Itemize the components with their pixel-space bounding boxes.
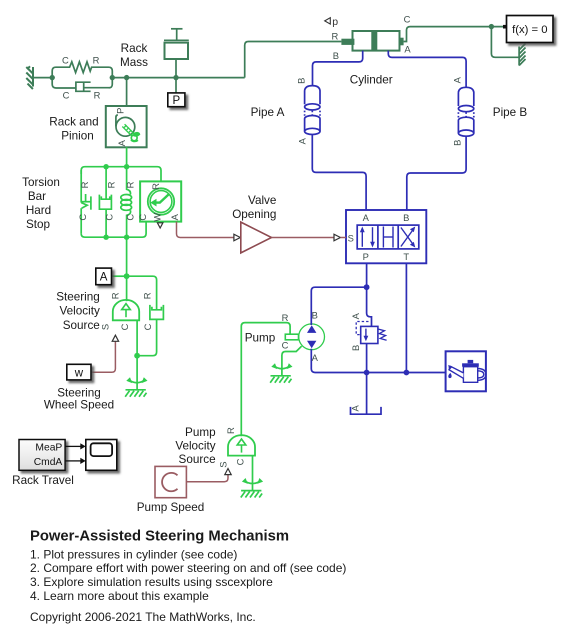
svg-text:A: A xyxy=(404,43,411,54)
sensor tag P xyxy=(168,93,185,107)
wire to rack and pinion P xyxy=(126,78,128,106)
wire valve P down xyxy=(367,263,372,326)
directional valve U3 border xyxy=(346,210,426,263)
rotational damper branch xyxy=(99,167,111,238)
cylinder body xyxy=(353,31,400,51)
svg-text:R: R xyxy=(79,181,90,188)
node pump B / valve P xyxy=(364,284,370,290)
svg-text:B: B xyxy=(403,212,409,223)
svg-text:Rack and: Rack and xyxy=(49,115,98,128)
pinion circle xyxy=(116,117,135,136)
wire main horizontal rail xyxy=(112,77,244,79)
wire torsion top bus xyxy=(81,167,161,182)
svg-text:B: B xyxy=(451,140,462,146)
pressure relief valve body xyxy=(361,326,378,343)
svg-text:f(x) = 0: f(x) = 0 xyxy=(512,24,547,36)
wire source C down xyxy=(136,320,138,389)
pump triangles xyxy=(307,325,316,333)
svg-text:A: A xyxy=(312,352,319,363)
rack mass icon xyxy=(164,29,189,78)
sensor needle xyxy=(150,194,169,206)
pump S input arrow xyxy=(225,469,231,475)
sensor W unconnected arrow xyxy=(157,223,163,228)
svg-text:Source: Source xyxy=(63,319,100,332)
wire sensor A to gain xyxy=(177,222,234,238)
valve right cell X arrows xyxy=(401,227,415,248)
svg-text:R: R xyxy=(93,54,100,65)
wire damper C down-left xyxy=(137,319,157,355)
svg-text:C: C xyxy=(119,323,130,330)
node relief B xyxy=(364,370,370,376)
wire rail up to cylinder rod xyxy=(245,42,342,78)
wire rack-pinion A to torsion top bus xyxy=(126,147,128,166)
svg-text:Pinion: Pinion xyxy=(61,129,94,142)
rotated labels xyxy=(77,76,463,467)
svg-text:C: C xyxy=(142,323,153,330)
svg-text:C: C xyxy=(404,14,411,25)
pump velocity source dome xyxy=(228,435,255,455)
torsion spring branch xyxy=(121,167,132,238)
node bottom bus spring xyxy=(124,235,129,240)
svg-text:R: R xyxy=(225,427,236,434)
oil can icon xyxy=(448,360,486,382)
svg-text:Rack Travel: Rack Travel xyxy=(12,474,74,487)
svg-text:P: P xyxy=(363,251,369,262)
svg-text:A: A xyxy=(349,404,360,411)
wire A-tag to shaft xyxy=(112,275,127,277)
wire pump A to tank rail xyxy=(311,349,445,373)
svg-text:4. Learn more about this examp: 4. Learn more about this example xyxy=(30,589,209,603)
svg-text:Steering: Steering xyxy=(57,386,101,399)
node left xyxy=(50,75,55,80)
svg-text:S: S xyxy=(348,232,354,243)
svg-text:Power-Assisted Steering Mechan: Power-Assisted Steering Mechanism xyxy=(30,529,289,545)
pump circle xyxy=(299,324,325,350)
svg-text:Torsion: Torsion xyxy=(22,176,60,189)
sensor gauge circles xyxy=(148,188,174,214)
svg-text:1. Plot pressures in cylinder: 1. Plot pressures in cylinder (see code) xyxy=(30,547,237,561)
svg-text:Pump Speed: Pump Speed xyxy=(137,501,205,514)
wire node to right wall xyxy=(491,27,519,58)
wire steering shaft down xyxy=(126,237,128,301)
svg-text:Velocity: Velocity xyxy=(60,305,100,318)
pump speed source block C xyxy=(155,466,186,497)
wire relief B down xyxy=(366,344,368,373)
node A-tag junction xyxy=(124,273,130,279)
svg-text:Cylinder: Cylinder xyxy=(350,73,393,86)
svg-text:B: B xyxy=(350,345,361,351)
svg-text:B: B xyxy=(312,309,318,320)
gain triangle (Valve Opening) xyxy=(241,222,272,253)
hard stop branch xyxy=(81,170,91,234)
rack and pinion block U (border) xyxy=(106,106,147,147)
svg-text:Steering: Steering xyxy=(56,291,100,304)
annotation <p on cylinder xyxy=(325,16,339,28)
wire torsion bottom bus xyxy=(81,222,146,238)
node top bus spring xyxy=(124,164,129,169)
ground wall right xyxy=(519,44,525,66)
wire valve T down xyxy=(405,263,407,372)
svg-text:Pump: Pump xyxy=(245,331,276,344)
svg-text:C: C xyxy=(62,54,69,65)
wire to P sensor tag xyxy=(175,78,177,93)
svg-text:Valve: Valve xyxy=(248,194,276,207)
node source/damper C xyxy=(134,353,140,359)
gain input arrow xyxy=(234,234,240,241)
svg-text:Velocity: Velocity xyxy=(175,440,215,453)
svg-text:Pipe B: Pipe B xyxy=(493,106,528,119)
node top bus damper xyxy=(103,164,108,169)
damper C1-R1 (bottom branch) xyxy=(52,78,76,88)
svg-text:Copyright 2006-2021 The MathWo: Copyright 2006-2021 The MathWorks, Inc. xyxy=(30,610,256,624)
rotational ground steering xyxy=(125,377,147,397)
svg-text:Opening: Opening xyxy=(232,208,276,221)
oil can block (hydraulic fluid) xyxy=(446,351,486,391)
steering velocity source dome xyxy=(113,300,139,320)
pump shaft wire from pump velocity source xyxy=(241,323,290,437)
svg-text:P: P xyxy=(172,95,180,107)
sensor tag A xyxy=(96,268,112,285)
svg-text:S: S xyxy=(218,461,229,467)
rotational ground pump source xyxy=(241,478,263,498)
svg-text:3. Explore simulation results: 3. Explore simulation results using ssce… xyxy=(30,575,273,589)
svg-text:R: R xyxy=(142,292,153,299)
svg-text:Source: Source xyxy=(179,453,216,466)
svg-text:A: A xyxy=(116,139,127,146)
rack detail in rack-and-pinion xyxy=(122,124,139,141)
svg-text:B: B xyxy=(295,78,306,84)
cylinder rod (filled) xyxy=(341,39,354,45)
relief valve pilot dashed xyxy=(356,322,368,335)
node rack-pinion branch xyxy=(124,75,129,80)
wire pipe B to valve B xyxy=(407,136,466,210)
relief valve spring xyxy=(378,329,387,340)
wire to hydraulic reference xyxy=(366,373,368,415)
svg-text:p: p xyxy=(332,16,338,28)
pump clevis fork xyxy=(285,334,298,340)
svg-text:Wheel Speed: Wheel Speed xyxy=(44,399,114,412)
relief valve arrow xyxy=(364,329,369,342)
svg-text:Stop: Stop xyxy=(26,218,51,231)
pipe B icon xyxy=(458,87,473,136)
wire pump speed to pump source S xyxy=(186,475,228,482)
svg-text:R: R xyxy=(332,31,339,42)
valve middle cell H xyxy=(383,227,393,248)
svg-text:Rack: Rack xyxy=(121,42,148,55)
svg-text:C: C xyxy=(234,458,245,465)
svg-text:C: C xyxy=(137,214,148,221)
pipe A icon xyxy=(305,86,320,135)
spring branch (top) with damper branch (bottom) parallel xyxy=(52,62,112,78)
svg-text:Hard: Hard xyxy=(26,204,51,217)
svg-text:R: R xyxy=(125,181,136,188)
svg-text:A: A xyxy=(363,212,370,223)
svg-text:w: w xyxy=(74,367,84,379)
svg-text:P: P xyxy=(115,108,126,114)
wire w tag to steering source S xyxy=(91,341,115,372)
svg-text:C: C xyxy=(77,214,88,221)
svg-text:B: B xyxy=(333,50,339,61)
svg-text:A: A xyxy=(296,137,307,144)
svg-text:CmdA: CmdA xyxy=(34,457,63,468)
bus selector MeaP/CmdA xyxy=(19,440,65,471)
svg-text:R: R xyxy=(150,183,161,190)
svg-text:A: A xyxy=(169,213,180,220)
wire pump B to node xyxy=(311,287,366,325)
source tag w xyxy=(67,364,91,380)
svg-text:C: C xyxy=(104,214,115,221)
wire pump C to ground xyxy=(282,346,302,375)
svg-text:S: S xyxy=(99,324,110,330)
svg-text:T: T xyxy=(403,251,409,262)
source arrow xyxy=(122,304,131,318)
svg-text:R: R xyxy=(106,181,117,188)
ground wall left xyxy=(26,66,33,89)
solver configuration f(x)=0 xyxy=(507,16,554,43)
cylinder right stub xyxy=(399,38,403,46)
signal arrow CmdA xyxy=(65,460,80,462)
wire cylinder C to f(x) node xyxy=(404,27,504,42)
node f(x) branch xyxy=(489,24,494,29)
valve inner symbol xyxy=(357,225,419,249)
wire wall to node xyxy=(33,77,52,79)
steering damper icon xyxy=(150,305,164,320)
wire shaft to steering damper xyxy=(127,276,157,310)
svg-text:C: C xyxy=(125,214,136,221)
svg-text:R: R xyxy=(282,312,289,323)
svg-text:Pump: Pump xyxy=(185,426,216,439)
node right xyxy=(110,75,115,80)
svg-text:2. Compare effort with power s: 2. Compare effort with power steering on… xyxy=(30,561,346,575)
wire gain to valve S xyxy=(272,237,334,239)
wire pump source C to ground xyxy=(252,456,254,491)
svg-text:Mass: Mass xyxy=(120,56,148,69)
cylinder piston plate xyxy=(371,31,377,51)
rotational ground pump xyxy=(270,363,292,383)
signal arrow MeaP xyxy=(65,443,86,464)
pump source arrow xyxy=(237,439,246,453)
svg-text:A: A xyxy=(350,312,361,319)
wire cylinder B to pipe A xyxy=(313,51,363,86)
svg-text:Bar: Bar xyxy=(28,190,46,203)
valve S input arrow xyxy=(334,234,340,241)
svg-text:C: C xyxy=(63,90,70,101)
hydraulic reference tank xyxy=(351,407,382,414)
valve left cell arrows xyxy=(360,227,375,248)
node bottom bus damper xyxy=(103,235,108,240)
scope block xyxy=(86,440,117,471)
node valve T xyxy=(404,370,410,376)
svg-text:A: A xyxy=(100,272,108,284)
svg-text:R: R xyxy=(110,292,121,299)
svg-text:R: R xyxy=(94,90,101,101)
steering S input arrow xyxy=(112,335,118,341)
motion sensor block border xyxy=(140,181,181,221)
wire cylinder A to pipe B xyxy=(388,51,466,88)
svg-text:MeaP: MeaP xyxy=(35,442,62,453)
svg-text:W: W xyxy=(151,213,162,222)
svg-text:C: C xyxy=(282,339,289,350)
svg-text:Pipe A: Pipe A xyxy=(251,106,285,119)
wire pipe A to valve A xyxy=(312,135,366,211)
svg-text:A: A xyxy=(451,76,462,83)
node rack mass branch xyxy=(173,75,178,80)
